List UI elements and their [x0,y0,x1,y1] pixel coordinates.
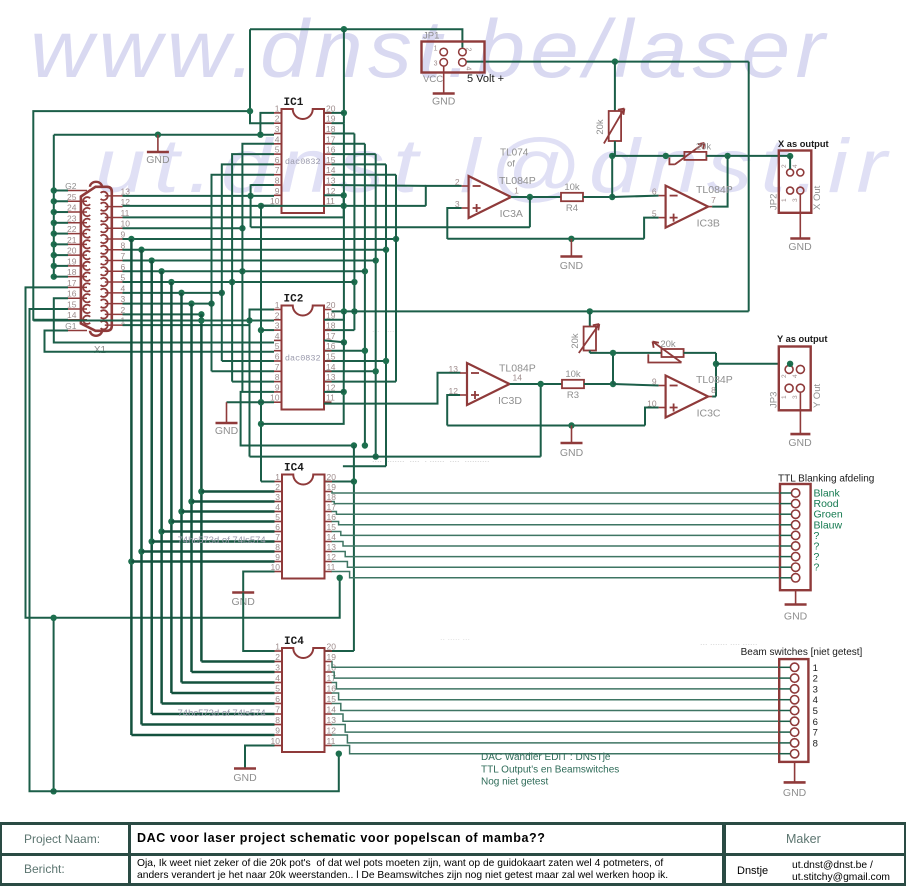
svg-text:3: 3 [275,124,280,134]
wire R4 to IC3B pin6 [612,196,658,197]
svg-text:GND: GND [215,425,239,437]
svg-text:5: 5 [275,341,280,351]
svg-text:9: 9 [121,229,126,239]
wire pot X1 20k vertical feed [614,62,616,111]
svg-text:20k: 20k [660,339,676,350]
svg-text:4: 4 [792,164,799,168]
wire bus vertical x181.5 [180,293,183,683]
wire IC1 pin1 drop [260,113,274,135]
svg-text:19: 19 [327,652,337,662]
wire Y +5V rail [332,310,749,312]
potentiometer 20k X horizontal [684,152,706,160]
svg-text:TL084P: TL084P [499,363,536,375]
wire bus vertical x161.6 [160,271,163,703]
node rail row8 bus [138,247,144,253]
node rail row5 v232 [229,279,235,285]
svg-text:5: 5 [275,145,280,155]
svg-text:VCC: VCC [423,74,443,85]
svg-text:14: 14 [326,362,336,372]
svg-text:1: 1 [275,642,280,652]
wire pot Y bottom [589,351,591,353]
node row13 railA riser [247,193,253,199]
node bus IC4a [178,508,184,514]
svg-text:GND: GND [560,447,584,459]
node IC1 pin20 [341,110,347,116]
node bus IC4a [138,548,144,554]
wire pot Y feed [589,311,591,326]
node v365 IC2 pin16 [362,348,368,354]
svg-text:20k: 20k [595,119,606,135]
wire X section GND rail [447,238,644,240]
wire IC1 pin5 vertical [232,154,274,282]
node IC2 pin12 [341,389,347,395]
node v375 line457 [373,453,379,459]
svg-text:7: 7 [275,165,280,175]
wire Y GND rail [447,425,645,427]
wire IC4b pin12 to beam 8 [332,735,780,743]
wire IC1 pin2 to JP1 rail [250,29,274,123]
svg-text:2: 2 [455,177,460,187]
svg-text:1: 1 [781,198,788,202]
svg-text:2: 2 [781,374,788,378]
svg-text:2: 2 [465,48,472,52]
node v386 row8 [383,247,389,253]
IC IC1 dac0832 [282,109,325,213]
wire IC3B pin5 riser [644,218,659,239]
svg-text:3: 3 [275,663,280,673]
svg-text:9: 9 [275,726,280,736]
wire GND rail y135 [54,134,274,136]
node Y rail GND [568,422,574,428]
svg-text:5: 5 [275,512,280,522]
wires beam stubs [779,666,790,668]
svg-text:6: 6 [652,187,657,197]
svg-text:TL084P: TL084P [696,374,733,386]
wire feedback riser to pots [611,156,613,197]
node X1 left bus row 25 [51,198,57,204]
wire R3 to IC3C pin9 [613,384,659,386]
wire X1 G1 to IC2 pin5 [45,331,275,352]
wire X1 row6 rail [123,270,365,272]
wire bus to IC4b pin [201,660,274,662]
wire R3 riser to pot Y line [612,353,614,384]
svg-text:11: 11 [326,196,335,206]
wire rail A drop to out [529,197,531,227]
svg-text:GND: GND [784,611,808,623]
wire bus to IC4a pin [142,550,275,552]
wire R3 out [584,383,613,385]
wire bus vertical x191.5 [190,304,193,672]
node IC2 pin10 [258,399,264,405]
wire rail A [251,226,530,228]
wire IC2 pin10 line to GND [227,401,275,403]
node chain 445 [351,442,357,448]
wire JP3 entry [787,361,793,367]
wire IC4 pin20 vertical [353,446,355,652]
wire bus vertical x201.4 [200,314,203,661]
ground TTL connector [795,590,797,604]
svg-text:TTL Output's en Beamswitches: TTL Output's en Beamswitches [481,764,619,775]
node IC2 wrap corner [258,421,264,427]
node IC4a TTL line 9 [337,575,343,581]
wire pot X2 out to JP2 [706,155,790,157]
wire bus to IC4a pin [182,510,275,512]
svg-text:7: 7 [275,705,280,715]
svg-text:6: 6 [813,717,818,728]
svg-text:4: 4 [792,374,799,378]
node +5V pot X [612,58,618,64]
svg-text:18: 18 [67,267,77,277]
node v354 row5 [351,279,357,285]
svg-text:74hc573d of 74ls574: 74hc573d of 74ls574 [178,708,266,719]
wire IC3C pin10 riser [645,408,659,426]
wire X1 row10 [123,227,243,229]
node bus IC4a [128,558,134,564]
wire IC2 pin19 tie [324,311,344,319]
wire IC2 wrap pin10-pin12 [261,392,344,424]
wire R4 out [583,196,612,198]
node bus IC4a [168,518,174,524]
wire IC4b pin1 riser [243,593,274,652]
svg-text:X as output: X as output [778,139,829,149]
wire IC4a pin16 to TTL 4 [332,522,781,525]
svg-text:74hc573d of 74ls574: 74hc573d of 74ls574 [178,535,266,546]
wire +5V right drop to Y rail [748,62,750,312]
wire pot Y2 out [684,352,716,354]
node row3 bus [188,300,194,306]
svg-text:1: 1 [514,186,519,196]
svg-text:dac0832: dac0832 [285,157,321,167]
wire IC4a pin19 to TTL 1 [332,492,781,494]
wire IC4a pin18 to TTL 2 [332,502,781,504]
wire X1 row4 rail [123,292,222,294]
node rail GND stem [568,236,574,242]
node v365 line445 [362,442,368,448]
potentiometer 20k Y horizontal [662,349,684,357]
svg-text:6: 6 [275,352,280,362]
wire IC3A pin3 drop [447,208,461,239]
svg-text:10k: 10k [564,182,580,193]
svg-text:13: 13 [449,364,459,374]
svg-text:5: 5 [652,209,657,219]
op-amp IC3B [666,186,709,228]
wire X1 left row 18 [54,276,68,278]
wire X feedback line [612,155,684,157]
svg-text:Nog niet getest: Nog niet getest [481,777,548,788]
wire IC3A output [511,196,561,198]
wire IC4a pin1 riser [261,481,275,483]
wire Y out to IC3C tip [712,396,716,398]
wire IC1 pin6 vertical [222,164,274,292]
wire bus to IC4a pin [131,560,274,562]
wire IC2 pin9 chain to IC4 pin20s [241,392,354,446]
wire bus to IC4a pin [162,530,275,532]
wire IC3D feedback return [250,456,541,458]
node IC4a pin20 [351,478,357,484]
svg-text:4: 4 [275,331,280,341]
svg-text:10: 10 [647,399,657,409]
svg-text:20k: 20k [696,142,712,153]
svg-text:19: 19 [327,482,337,492]
svg-text:.... ....... .... . ......: .... ....... .... . ...... .... ........… [372,454,490,464]
connector JP1 [422,42,485,73]
potentiometer 20k X vertical [609,111,621,141]
wire line466 to chain [343,465,386,467]
potentiometer 20k Y vertical [584,327,596,351]
svg-text:20: 20 [327,472,337,482]
wire IC4a pin12 to TTL 8 [332,562,781,568]
node pot Y mid [610,350,616,356]
svg-text:14: 14 [327,532,337,542]
node row2 bus [198,311,204,317]
node X1 left bus row 24 [51,209,57,215]
resistor R3 10k [562,380,584,388]
svg-text:1: 1 [275,103,280,113]
wire X1 row11 to IC1 pin12 wrap [123,216,262,218]
svg-text:7: 7 [275,532,280,542]
svg-text:X Out: X Out [812,185,823,210]
ground beam connector [794,762,796,783]
svg-text:6: 6 [275,155,280,165]
wire +5V from JP1 to right [466,61,749,63]
wire IC3D output [510,383,562,385]
svg-text:DAC Wandler EDIT : DNSTje: DAC Wandler EDIT : DNSTje [481,752,611,763]
svg-text:20: 20 [326,300,336,310]
svg-text:IC4: IC4 [284,636,304,648]
svg-text:3: 3 [275,321,280,331]
wire IC4b pin16 to beam 4 [332,693,780,700]
wire X1 row5 rail [123,281,355,283]
svg-text:2: 2 [275,114,280,124]
node v365 row6 [362,268,368,274]
wire IC1 pin7 vertical [212,175,275,304]
svg-text:4: 4 [275,502,280,512]
svg-text:11: 11 [326,393,335,403]
node rail IC2 trunk [341,308,347,314]
wire IC1 pin17 to IC2 pin16 vertical [332,143,365,145]
node X1 left bus row G2 [51,187,57,193]
svg-text:8: 8 [275,176,280,186]
wire bus vertical x151.7 [150,261,153,714]
wire bus vertical x171.4 [170,282,173,693]
wire rail link to beam rail [53,618,55,792]
wire IC1 pin8 short [251,184,274,186]
svg-text:16: 16 [67,289,77,299]
svg-text:16: 16 [326,341,336,351]
op-amp IC3C [666,376,709,418]
node JP1 rail / IC1 vertical [341,26,347,32]
svg-text:R3: R3 [567,390,579,401]
wire IC2 pin17 vertical [343,311,345,342]
svg-text:R4: R4 [566,203,578,214]
svg-text:Y as output: Y as output [777,334,827,344]
node v386 IC2 pin15 [383,358,389,364]
wire bus to IC4b pin [162,702,275,704]
svg-text:GND: GND [783,787,807,799]
svg-text:X1: X1 [94,345,107,356]
wire IC4b pin11 to beam 9 [332,746,780,754]
svg-text:15: 15 [67,299,77,309]
wire IC2 trunk to pin12 wrap [343,342,345,392]
svg-text:GND: GND [560,260,584,272]
svg-text:1: 1 [813,663,818,674]
svg-text:13: 13 [327,715,337,725]
wire IC4a pin13 to TTL 7 [332,552,781,557]
node IC1 pin1 drop [257,132,263,138]
svg-text:7: 7 [275,362,280,372]
wire IC4b pin15 to beam 5 [332,704,780,711]
node IC2 pin3 [258,327,264,333]
svg-text:JP1: JP1 [423,31,439,42]
ground near IC1 [157,135,159,152]
wire IC3D pin12 drop [447,395,460,426]
wire X1 left row 24 [54,211,68,213]
svg-text:9: 9 [652,377,657,387]
svg-text:18: 18 [326,321,336,331]
wire rail A riser [250,184,252,227]
svg-text:JP2: JP2 [769,194,780,210]
wire bus to IC4a pin [192,500,275,502]
svg-text:9: 9 [275,382,280,392]
wire bus to IC4a pin [152,540,275,542]
node row10 join [239,225,245,231]
svg-text:10k: 10k [565,369,581,380]
node rail IC1 pin14 [393,236,399,242]
svg-text:.. ..... ...: .. ..... ... [440,632,470,642]
node rail row4 v221 [219,290,225,296]
svg-text:22: 22 [67,224,77,234]
wire X1 pin14 to IC2 pin2 [33,111,250,320]
svg-text:GND: GND [233,772,257,784]
svg-text:IC2: IC2 [284,294,304,306]
svg-text:8: 8 [275,542,280,552]
wire X1 row8 rail [123,249,387,251]
node X1 left bus row 21 [51,241,57,247]
svg-text:TL084P: TL084P [499,175,536,187]
svg-text:IC1: IC1 [284,97,304,109]
connector JP2 [779,151,812,213]
node IC2 pin1 join [246,317,252,323]
svg-text:25: 25 [67,192,77,202]
svg-text:of: of [507,159,515,170]
svg-text:?: ? [814,562,820,574]
wire Y out to JP3 [716,363,779,365]
node X1 left bus row 23 [51,220,57,226]
wire bus to IC4b pin [152,713,275,715]
ground JP1 [443,66,445,94]
wire +5V trunk to IC1 pin20/19 and IC2 rail [343,29,345,123]
node IC1 pin12 [341,192,347,198]
wire X1 pin15 loop to IC4b pin11 [30,309,339,791]
node pot X junction [609,153,615,159]
node bus V8 X1 pin14 line [198,317,204,323]
svg-text:IC3C: IC3C [697,408,721,420]
node bus IC4a [198,488,204,494]
wire IC1 pin16 to IC2 pin14 vertical [332,153,376,155]
svg-text:8: 8 [275,715,280,725]
wire JP2 entry [787,153,793,159]
svg-text:11: 11 [327,736,336,746]
wire IC2 pin1 drop to feedback line [250,310,275,457]
node bus IC4a [158,528,164,534]
node bus IC4a [149,538,155,544]
wire IC4b pin13 to beam 7 [332,725,780,733]
node v375 IC2 pin14 [373,368,379,374]
svg-text:TL074: TL074 [500,148,529,159]
wire IC1 pin14 to IC2 pin13 vertical [332,174,397,176]
wire X1 left row 19 [54,265,68,267]
IC IC4 lower 74hc573 [282,648,325,752]
wire IC4a pin14 to TTL 6 [332,542,781,547]
svg-text:12: 12 [327,552,337,562]
wire IC1 pin18 to IC2 pin18 vertical [332,133,355,135]
wire IC4b pin18 to beam 2 [332,672,780,678]
node rail row3 v211 [208,300,214,306]
node GND stem [155,132,161,138]
svg-text:14: 14 [327,705,337,715]
node row12 IC1 pin10 [258,203,264,209]
wire X out drop to IC3B [712,156,728,207]
wire IC4b pin17 to beam 3 [332,683,780,689]
svg-text:20k: 20k [570,333,581,349]
svg-text:20: 20 [326,103,336,113]
wire IC3A pin2 riser [426,186,462,206]
svg-text:5: 5 [275,684,280,694]
svg-text:8: 8 [813,738,818,749]
wire X1 row2 rail [123,313,202,315]
ground JP3 [799,392,801,434]
wire IC2 pin11 to IC3D pin13 [324,373,461,404]
wire IC4a pin11 to TTL 9 [332,572,781,578]
node X out [724,153,730,159]
node pot X2 left [663,153,669,159]
svg-text:19: 19 [326,114,336,124]
ground IC4 upper [243,572,274,593]
node IC3D out [538,381,544,387]
node rail row6 v242 [239,268,245,274]
svg-text:7: 7 [813,728,818,739]
wire IC1 pin10 stub join [261,205,274,207]
svg-text:IC3A: IC3A [500,208,523,220]
wire bus vertical x131.4 [130,239,133,735]
node rail row7 bus [149,257,155,263]
node X1 left bus row 20 [51,252,57,258]
connector beam switches [779,659,808,762]
wire bus to IC4b pin [142,723,275,725]
svg-text:4: 4 [275,673,280,683]
ground mid X section [570,239,572,257]
node R3 out [610,381,616,387]
wire GND rail row9 [123,238,397,240]
node v375 row7 [373,257,379,263]
resistor R4 10k [561,193,583,201]
svg-text:21: 21 [67,235,77,245]
svg-text:13: 13 [327,542,337,552]
node rail pot Y [587,308,593,314]
svg-text:2: 2 [275,310,280,320]
svg-text:... ....... .... ......: ... ....... .... ...... [700,637,758,647]
node R4 out [609,194,615,200]
node rail bus V1 [128,236,134,242]
wire IC1 pin4 vertical [242,144,274,271]
ground mid Y section [571,426,573,444]
svg-text:2: 2 [275,482,280,492]
svg-text:24: 24 [67,203,77,213]
wire X1 pin16 to IC2 pin4 [54,298,274,342]
wire bus to IC4b pin [171,692,274,694]
svg-text:14: 14 [67,310,77,320]
node rail row6 bus [158,268,164,274]
